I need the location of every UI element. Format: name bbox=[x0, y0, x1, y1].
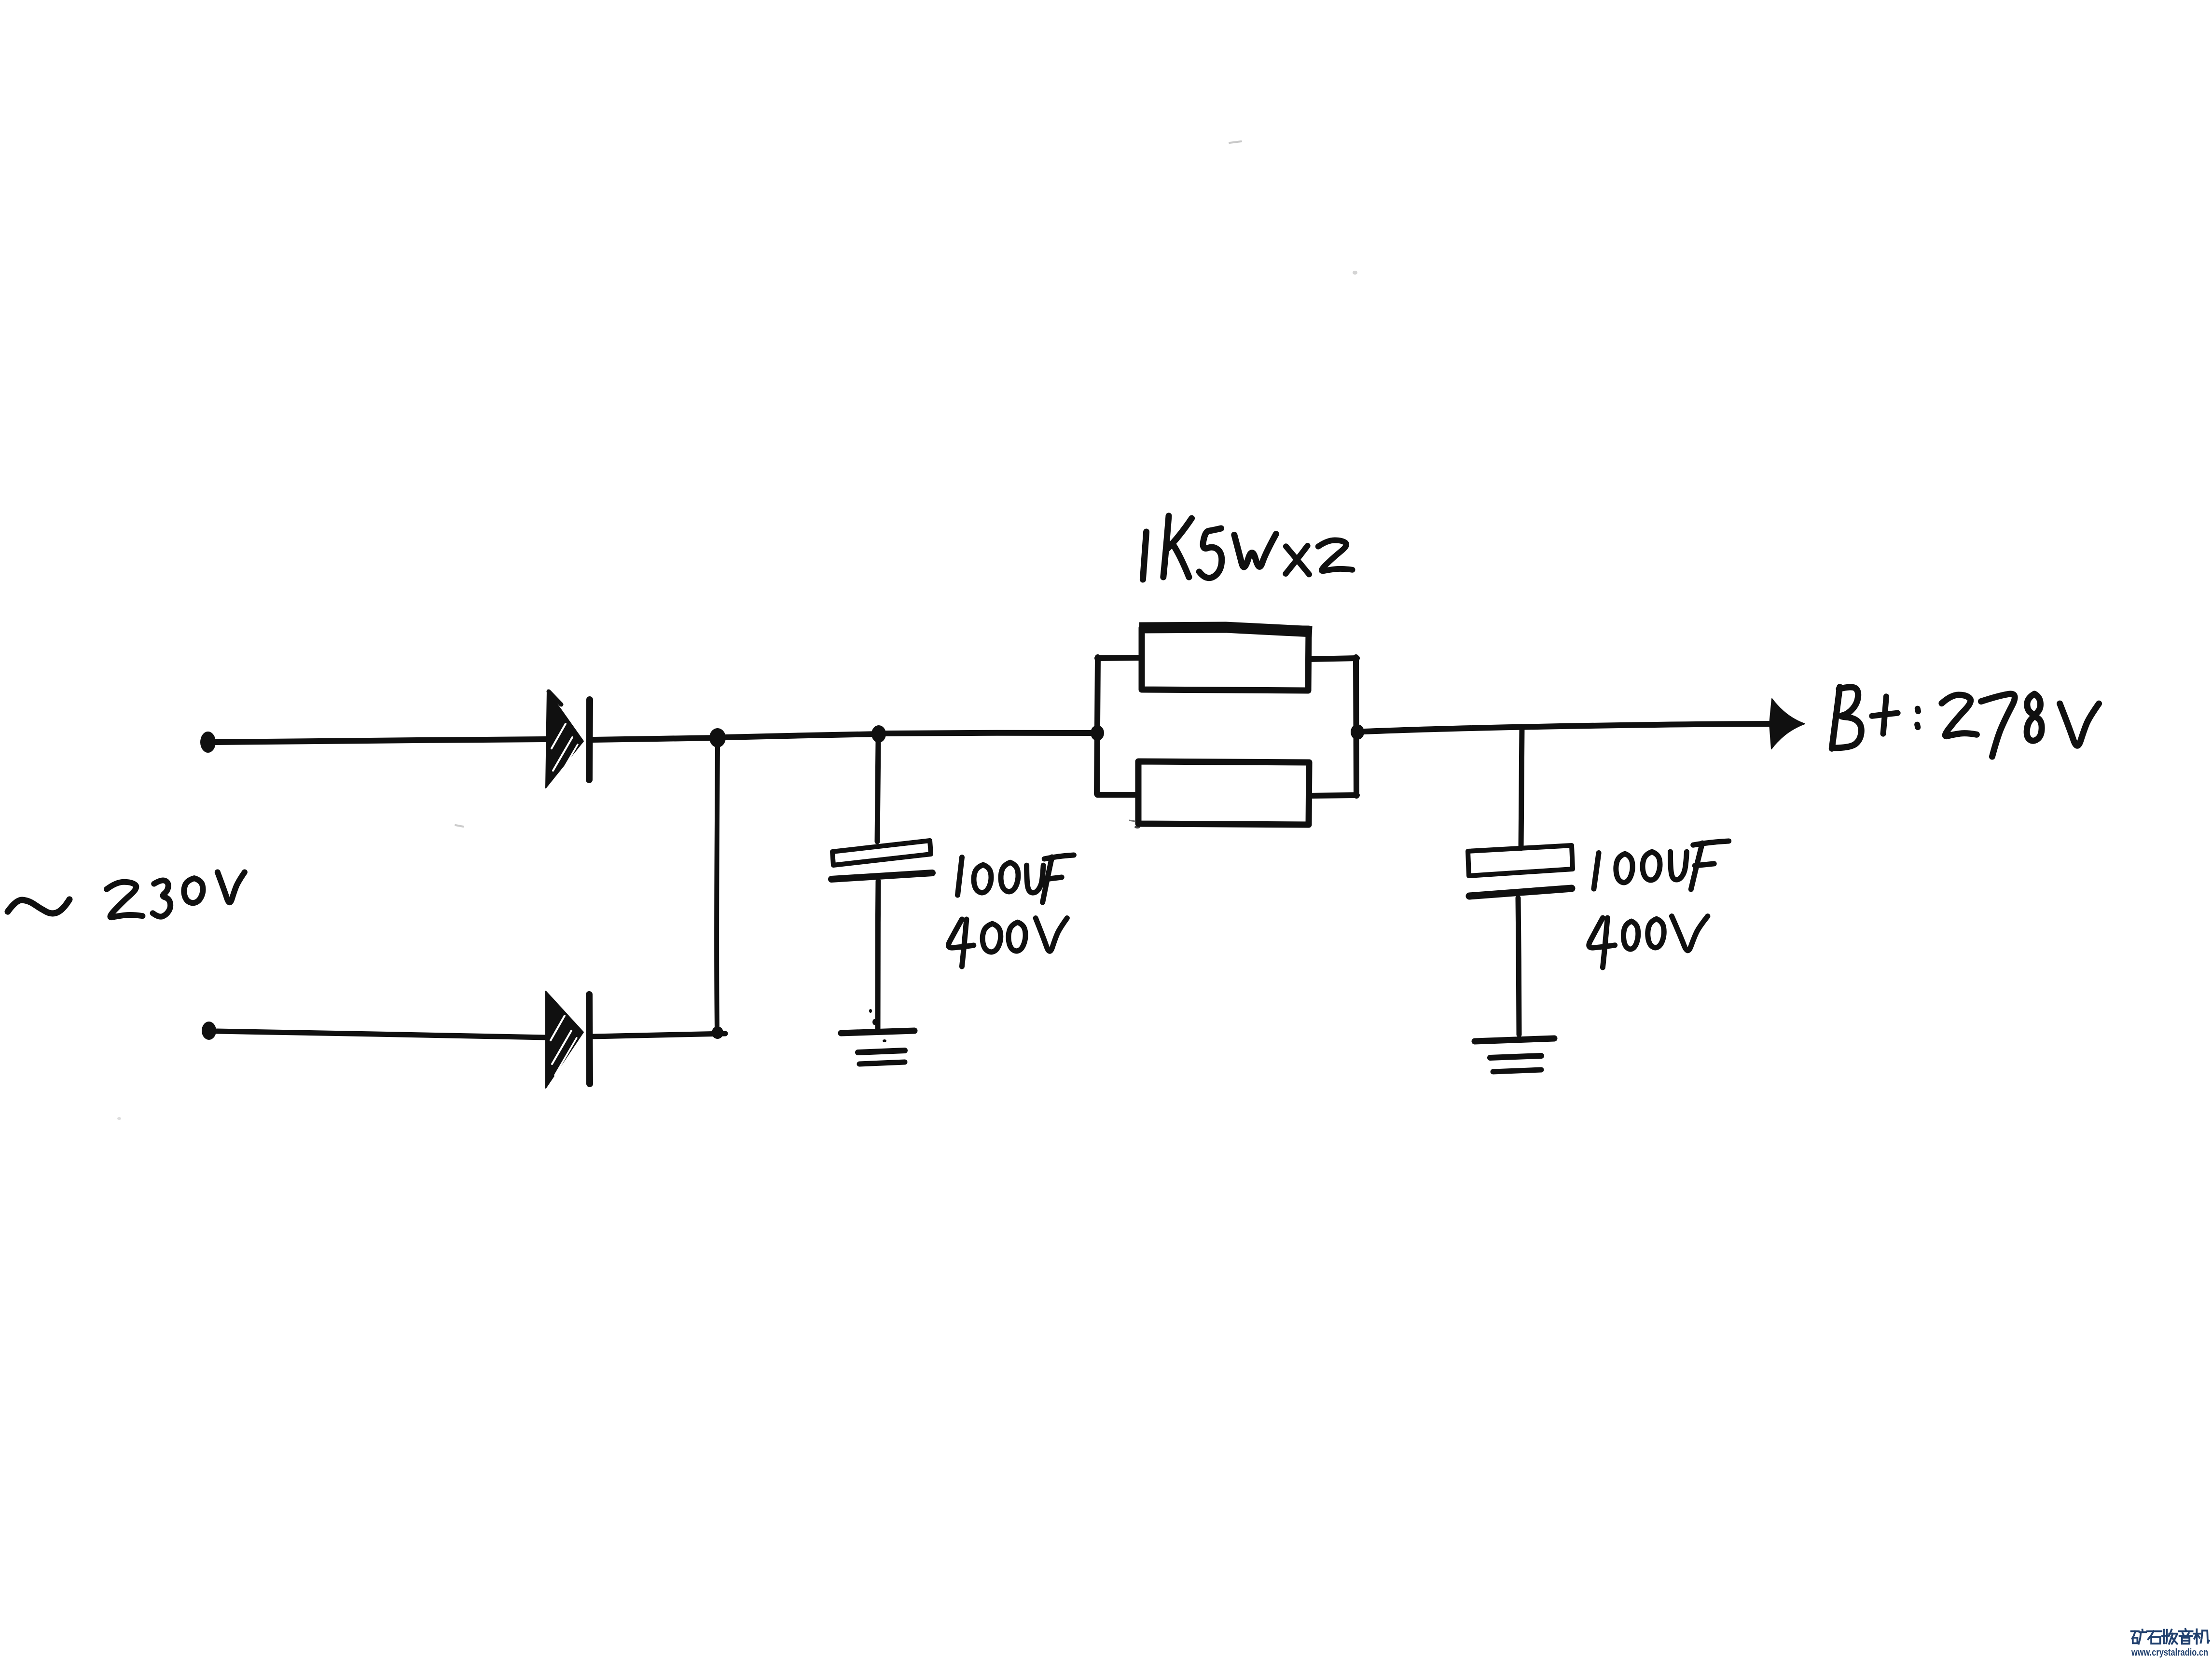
watermark crystalradio logo bbox=[2131, 1629, 2209, 1658]
label C1 400V bbox=[948, 918, 1067, 967]
terminal input top bbox=[200, 732, 216, 753]
capacitor C2 bbox=[1468, 727, 1573, 1035]
wire D2 to lower junction bbox=[593, 1034, 725, 1036]
diode D2 bbox=[546, 991, 590, 1088]
label C2 100UF bbox=[1594, 841, 1729, 889]
node R left bbox=[1091, 725, 1104, 741]
wire output bbox=[1364, 724, 1772, 732]
node J1 bbox=[709, 728, 726, 747]
wire R right bracket bbox=[1356, 657, 1356, 796]
wire input bottom bbox=[217, 1031, 546, 1037]
label 230V bbox=[107, 872, 245, 918]
diode D1 bbox=[546, 690, 590, 788]
label C2 400V bbox=[1589, 916, 1708, 967]
resistor R1 bbox=[1139, 627, 1312, 691]
wire D1 to J1 bbox=[593, 738, 720, 740]
label C1 100UF bbox=[958, 855, 1074, 902]
wire R1 stub left bbox=[1097, 658, 1141, 658]
wire R2 stub left bbox=[1097, 792, 1138, 798]
ground G2 bbox=[1475, 1038, 1554, 1072]
node C1 top bbox=[871, 725, 886, 743]
arrow B+ output bbox=[1770, 699, 1805, 749]
terminal input bottom bbox=[202, 1022, 216, 1040]
label B+ 278V bbox=[1832, 687, 2099, 757]
wire R2 stub right bbox=[1309, 795, 1357, 796]
ground G1 bbox=[841, 1031, 914, 1064]
wire C1 node to R node bbox=[886, 733, 1097, 733]
node R right bbox=[1351, 724, 1364, 740]
wire R1 stub right bbox=[1309, 658, 1357, 659]
wire J1 vertical bbox=[717, 746, 718, 1029]
svg-text:www.crystalradio.cn: www.crystalradio.cn bbox=[2131, 1647, 2208, 1658]
node lower junction bbox=[712, 1026, 723, 1039]
wire R left bracket bbox=[1097, 657, 1098, 794]
wire input top bbox=[216, 739, 546, 742]
wire J1 to C1 node bbox=[726, 734, 880, 737]
resistor R2 bbox=[1138, 761, 1309, 825]
capacitor C1 bbox=[831, 742, 932, 1042]
label AC tilde bbox=[8, 899, 69, 913]
label 1K5Wx2 bbox=[1143, 516, 1352, 580]
